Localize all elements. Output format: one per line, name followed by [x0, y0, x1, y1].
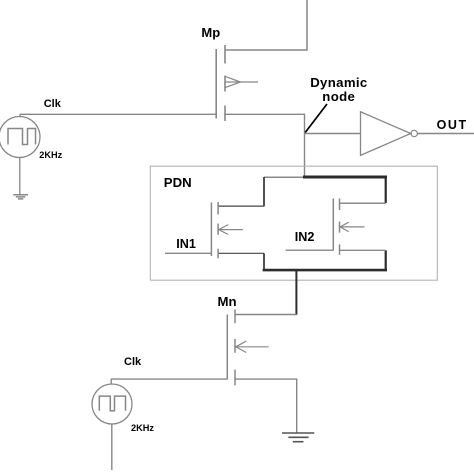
wire Mn drain stub — [235, 314, 297, 316]
inverter U1 triangle — [361, 112, 411, 156]
wire inverter output to OUT — [417, 133, 474, 135]
label PDN — [164, 175, 192, 190]
transistor Mn bulk arrow (points left, NMOS) — [235, 341, 269, 352]
label 2KHz (top) — [39, 150, 62, 160]
label Dynamic node — [310, 75, 367, 90]
ground (bottom-right) — [282, 433, 314, 442]
label Mn — [218, 294, 237, 309]
wire IN1 drain stub — [218, 205, 264, 207]
ground (top-left) — [13, 195, 28, 199]
label OUT — [437, 118, 468, 132]
wire bold right vertical of PDN bus — [385, 176, 387, 203]
wire IN2 gate input — [286, 249, 334, 251]
wire IN1 source stub — [218, 252, 264, 254]
transistor IN2 gate bar — [332, 199, 334, 251]
node: top bus bar of PDN (thin left part) — [264, 176, 305, 178]
clock source V2 square-wave glyph — [99, 396, 125, 411]
transistor Mn channel bar — [234, 310, 236, 386]
wire Mn source to ground — [235, 379, 297, 433]
transistor IN1 channel bar — [217, 202, 219, 258]
wire clock V1 to ground — [19, 158, 21, 195]
PDN dashed box — [150, 166, 437, 280]
wire IN1 drain vertical — [263, 177, 265, 206]
wire IN1 source vertical — [263, 253, 265, 270]
node: bold bottom bus bar of PDN — [263, 269, 387, 272]
label IN2 — [295, 230, 315, 244]
transistor IN2 bulk arrow (points left, NMOS) — [340, 222, 365, 231]
transistor Mp channel bar — [224, 45, 226, 121]
transistor Mp bulk arrow (points right, PMOS) — [225, 77, 258, 88]
label Mp — [201, 25, 220, 40]
label 2KHz (bottom) — [131, 423, 154, 433]
transistor Mn gate bar — [226, 315, 228, 380]
leader line to dynamic node — [305, 104, 327, 133]
wire VDD vertical into Mp drain stub — [225, 0, 307, 50]
clock source V1 square-wave glyph — [8, 129, 36, 145]
wire IN2 drain stub — [340, 202, 386, 204]
wire IN1 gate input — [165, 252, 211, 254]
transistor IN1 bulk arrow (points left, NMOS) — [218, 225, 243, 235]
transistor IN2 channel bar — [339, 199, 341, 255]
clock source V1 circle (top-left) — [0, 117, 40, 158]
label Clk (bottom) — [124, 356, 141, 368]
clock source V2 circle (bottom) — [92, 384, 132, 424]
label IN1 — [176, 237, 196, 251]
inverter U1 bubble — [411, 130, 417, 136]
wire Clk wire down to clock source V2 — [110, 379, 112, 384]
wire dynamic node to inverter input — [305, 133, 361, 135]
wire bold PDN bottom to Mn drain — [295, 270, 297, 315]
wire Clk to Mp gate — [20, 114, 216, 117]
wire Mp source to dynamic node, down to PDN — [225, 114, 305, 177]
wire below clock source V2 — [111, 424, 113, 470]
wire Clk to Mn gate — [111, 378, 228, 380]
transistor Mp gate bar — [215, 49, 217, 119]
wire IN2 source stub — [340, 249, 386, 251]
wire bold IN2 source vertical — [385, 250, 387, 270]
node: top bus bar of PDN (bold right part) — [303, 176, 387, 179]
transistor IN1 gate bar — [210, 203, 212, 257]
label Clk (top) — [44, 98, 61, 110]
